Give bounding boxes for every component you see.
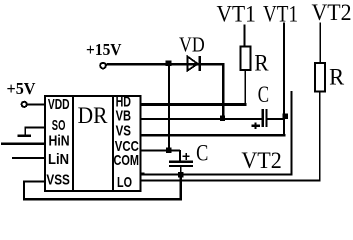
- wire COM pin line: [142, 174, 293, 176]
- junction VCC line: [166, 148, 172, 154]
- svg-text:R: R: [254, 51, 269, 76]
- svg-text:R: R: [329, 65, 345, 90]
- svg-text:COM: COM: [114, 152, 140, 169]
- wire R2 bottom lead down to LO line: [319, 93, 321, 182]
- svg-text:VDD: VDD: [48, 96, 70, 113]
- wire VS pin to VT1 source branch: [142, 134, 286, 137]
- diode VD cathode bar: [199, 56, 201, 71]
- svg-text:C: C: [196, 140, 208, 165]
- capacitor C2 top plate: [169, 160, 193, 162]
- IC U1 right column divider: [112, 96, 114, 191]
- wire C2 bottom plate to COM line: [180, 167, 182, 174]
- IC U1 left column divider: [72, 96, 74, 191]
- svg-text:VSS: VSS: [46, 171, 70, 188]
- wire VT1 source vertical: [283, 23, 285, 137]
- wire C1 right plate to VS node: [267, 118, 283, 120]
- wire SO pin left: [24, 127, 45, 129]
- svg-text:VT2: VT2: [312, 0, 352, 25]
- wire bottom rail up to COM junction: [180, 175, 183, 201]
- wire R1 bottom lead to HD line: [244, 71, 246, 104]
- terminal +5V: [22, 102, 27, 107]
- COM pin connection square: [142, 172, 145, 175]
- capacitor C1 polarity plus: [251, 125, 260, 127]
- wire VT2 gate top lead: [319, 23, 321, 63]
- svg-text:LiN: LiN: [48, 151, 69, 168]
- wire VCC pin to C2: [142, 150, 181, 152]
- resistor R2: [315, 63, 325, 92]
- svg-text:VT2: VT2: [241, 148, 281, 173]
- wire VB pin to C1 left plate: [142, 118, 262, 120]
- wire VT1 gate top lead: [244, 25, 246, 46]
- svg-text:HiN: HiN: [49, 132, 70, 149]
- junction VB/VS node: [282, 114, 288, 120]
- capacitor C2 bottom plate: [169, 165, 193, 167]
- wire diode cathode corner down to VB line: [222, 63, 224, 116]
- wire HiN input: [1, 142, 46, 145]
- terminal +15V: [100, 63, 106, 69]
- resistor R1: [241, 47, 251, 71]
- svg-text:VT1: VT1: [217, 1, 256, 26]
- wire SO drop to ground: [24, 127, 26, 137]
- wire +15V rail: [107, 63, 225, 65]
- IC U1 box: [45, 96, 140, 191]
- wire bottom rail: [23, 198, 182, 201]
- wire VCC corner down to C2 top plate: [179, 150, 181, 161]
- capacitor C2 polarity plus: [183, 156, 190, 158]
- wire HD pin to R1: [142, 103, 247, 106]
- wire +15V down to VCC: [168, 65, 170, 151]
- capacitor C1 right plate: [265, 109, 267, 127]
- wire +5V to VDD pin: [28, 103, 46, 105]
- wire VSS down: [23, 181, 25, 201]
- junction COM / C2 / bottom rail: [178, 172, 184, 178]
- svg-text:C: C: [258, 82, 269, 107]
- svg-text:LO: LO: [117, 174, 132, 191]
- svg-text:VT1: VT1: [263, 1, 298, 26]
- svg-text:+5V: +5V: [7, 79, 37, 98]
- junction +15V rail / VCC branch: [165, 61, 171, 67]
- svg-text:SO: SO: [52, 117, 66, 134]
- capacitor C1 left plate: [261, 109, 264, 127]
- wire LiN input: [12, 157, 45, 159]
- wire VT2 drain vertical: [291, 91, 293, 173]
- svg-text:VD: VD: [179, 32, 205, 56]
- svg-text:DR: DR: [78, 103, 108, 128]
- wire LO pin to R2: [142, 179, 319, 181]
- wire VSS pin left: [23, 181, 46, 183]
- diode VD anode triangle: [187, 56, 197, 70]
- ground bar (SO): [18, 135, 32, 137]
- junction VB line at diode branch: [220, 115, 225, 120]
- svg-text:+15V: +15V: [86, 40, 122, 59]
